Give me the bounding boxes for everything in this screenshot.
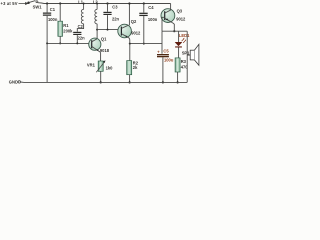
wire R1 bottom lead: [59, 36, 61, 43]
wire C4 top lead: [143, 4, 145, 13]
svg-text:1k0: 1k0: [106, 66, 114, 71]
node C4 top: [143, 2, 145, 4]
svg-text:VR1: VR1: [87, 62, 96, 67]
wire L1 to C2: [77, 24, 83, 32]
node L2 bottom: [96, 29, 98, 31]
svg-text:22n: 22n: [78, 36, 86, 41]
svg-text:+: +: [157, 49, 160, 54]
node C3 bottom: [107, 29, 109, 31]
wire R2 top lead: [129, 44, 131, 61]
svg-text:100n: 100n: [148, 17, 158, 22]
svg-text:R3: R3: [181, 59, 187, 64]
svg-text:C2: C2: [78, 24, 84, 29]
svg-text:Q2: Q2: [131, 19, 137, 24]
wire C4 bottom lead: [143, 16, 145, 43]
node Q2 collector top: [128, 2, 130, 4]
wire Q3 collector to rail: [170, 4, 172, 11]
svg-text:C3: C3: [112, 4, 118, 9]
wire Q2 emitter down: [129, 38, 131, 43]
svg-text:C1: C1: [50, 7, 56, 12]
node R3 gnd: [177, 81, 179, 83]
svg-text:200k: 200k: [63, 28, 73, 33]
wire C2 bottom lead: [76, 35, 78, 43]
node C5 gnd: [162, 81, 164, 83]
transistor Q2: [118, 19, 141, 39]
svg-text:2k: 2k: [133, 65, 138, 70]
wire R3 bottom lead: [177, 72, 179, 82]
wire down to ground rail: [46, 43, 48, 82]
wire Q2 collector to rail: [128, 4, 130, 26]
node C4 bottom: [143, 43, 145, 45]
svg-text:9012: 9012: [131, 31, 141, 36]
svg-text:LED1: LED1: [179, 33, 190, 38]
svg-text:22n: 22n: [112, 16, 120, 21]
wire output bus A: [162, 30, 187, 32]
svg-text:SW1: SW1: [33, 4, 43, 9]
wire Q1 emitter to VR1: [100, 52, 102, 61]
wire R1 top lead: [59, 4, 61, 22]
svg-text:+3 at 5V: +3 at 5V: [1, 1, 18, 6]
wire C1 top lead: [46, 4, 48, 13]
node C1/GND branch: [46, 42, 48, 44]
wire C5 bottom lead: [162, 57, 164, 82]
wire L2 to Q1 collector: [96, 24, 98, 39]
wire emitter bus B: [130, 43, 162, 45]
node C2-bottom: [76, 42, 78, 44]
node C1-top: [46, 2, 48, 4]
wire Q3 base: [162, 17, 165, 31]
svg-text:100n: 100n: [48, 17, 58, 22]
node VR1 gnd: [100, 81, 102, 83]
switch SW1: [27, 1, 30, 4]
svg-text:GND: GND: [9, 80, 18, 85]
wire Q3 emitter down: [173, 23, 175, 31]
wire bus to Q2 base: [97, 29, 118, 31]
wire C3 bottom lead: [107, 15, 109, 30]
wire LED to R3: [178, 48, 180, 58]
node R1-top: [59, 2, 61, 4]
node Q2emitter/R2: [129, 43, 131, 45]
svg-text:C4: C4: [148, 5, 154, 10]
resistor R2: [127, 61, 132, 75]
capacitor C3: [103, 12, 111, 13]
capacitor C1: [43, 13, 51, 14]
wire C3 top lead: [107, 4, 109, 12]
svg-text:Q1: Q1: [101, 36, 107, 41]
transistor Q3: [161, 9, 186, 23]
svg-text:100u: 100u: [164, 57, 174, 62]
resistor R1: [58, 21, 63, 36]
resistor R3: [175, 58, 180, 72]
svg-text:9012: 9012: [176, 16, 186, 21]
wire R2 bottom lead: [129, 75, 131, 83]
capacitor C4: [139, 13, 147, 14]
wire down to C5: [161, 31, 163, 54]
svg-text:9018: 9018: [100, 48, 110, 53]
supply arrow: [19, 3, 26, 5]
svg-text:Q3: Q3: [177, 9, 183, 14]
transistor Q1: [89, 36, 110, 53]
potentiometer VR1: [98, 61, 103, 71]
wire VR1 bottom lead: [100, 71, 102, 82]
node R1-bottom: [59, 42, 61, 44]
node Q3 emitter: [173, 30, 175, 32]
node C3 top: [106, 2, 108, 4]
node R2 gnd: [129, 81, 131, 83]
wire top rail: [38, 2, 171, 5]
wire C1 bottom lead: [46, 16, 48, 44]
wire base bus to Q1: [47, 42, 89, 44]
capacitor C2: [73, 32, 81, 33]
svg-text:C5: C5: [163, 48, 169, 53]
